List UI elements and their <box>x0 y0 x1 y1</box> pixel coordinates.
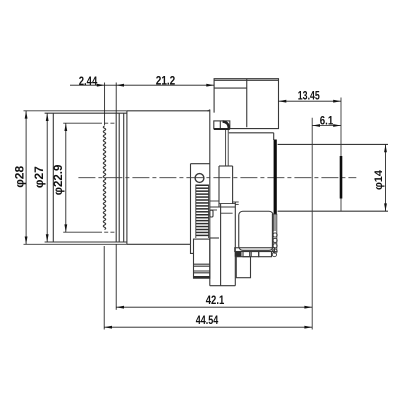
slider block lower <box>210 202 236 286</box>
dim 42.1 line <box>116 306 312 308</box>
main barrel phi28 <box>127 111 210 245</box>
barrel rear lip <box>207 110 210 111</box>
lead screw <box>226 129 229 166</box>
knurl ring rear edges <box>116 113 124 242</box>
arrow 42.1 right <box>304 306 312 309</box>
arrow 21.2 left (points left at 116.2) <box>116 84 124 87</box>
dim phi14 line <box>385 144 387 211</box>
arrow 21.2 right (points right at 214.1) <box>206 84 214 87</box>
arrow 42.1 left <box>116 306 124 309</box>
svg-text:13.45: 13.45 <box>298 88 320 102</box>
centerline <box>78 177 356 179</box>
rear barrel section <box>229 133 274 140</box>
gear rack teeth <box>196 185 209 237</box>
phi14 rear cylinder <box>278 144 388 211</box>
dim 6.1 line <box>312 125 341 127</box>
rear element thick edge <box>274 140 277 215</box>
svg-text:φ28: φ28 <box>13 166 27 188</box>
focus motor body <box>239 211 273 250</box>
gear rack edges <box>196 185 209 239</box>
arrow 6.1 left <box>312 124 320 127</box>
rear glass element <box>340 156 343 199</box>
dim 44.54 line <box>104 326 312 328</box>
slider block upper <box>219 166 233 207</box>
bracket hole <box>195 174 204 183</box>
arrow 44.54 left <box>104 326 112 329</box>
guide bracket <box>191 164 210 245</box>
flange face line <box>311 118 313 330</box>
motor terminal column <box>272 214 277 251</box>
barrel bottom step <box>191 244 194 253</box>
dim phi28 line <box>25 111 27 245</box>
dim 21.2 line <box>116 84 214 86</box>
knurled front face serration <box>103 126 105 230</box>
svg-text:2.44: 2.44 <box>79 74 98 88</box>
arrow phi22.9 top/bottom <box>64 123 67 131</box>
arrow 2.44 left (points right at x=104.6) <box>97 84 105 87</box>
phi28 extension lines (main barrel silhouette extended left) <box>24 111 127 245</box>
arrow phi28 top/bottom <box>25 111 28 119</box>
svg-text:44.54: 44.54 <box>196 313 219 327</box>
dim phi27 line <box>46 113 48 242</box>
gear rack pin <box>210 210 213 217</box>
dimension texts <box>13 74 385 327</box>
dim 42.1: left extension <box>115 244 117 309</box>
svg-text:φ14: φ14 <box>373 169 385 190</box>
rear end face line <box>340 98 342 212</box>
box lower-left coupling notch <box>214 121 230 130</box>
mechanism front edge <box>209 110 211 286</box>
arrow 13.45 left <box>279 100 287 103</box>
arrowheads <box>25 84 387 329</box>
arrow phi27 top/bottom <box>46 113 49 121</box>
motor housing box (top) <box>214 79 278 129</box>
bracket foot <box>194 239 210 278</box>
dim 13.45 line <box>279 100 342 102</box>
dim phi22.9 line <box>65 123 67 232</box>
front barrel phi27 <box>45 113 127 242</box>
svg-text:21.2: 21.2 <box>156 74 176 88</box>
dim 44.54: left extension <box>103 246 105 330</box>
motor bottom plate <box>235 248 275 257</box>
arrow 6.1 right <box>333 124 341 127</box>
slider cross links <box>210 201 239 213</box>
arrow phi14 top/bottom <box>384 144 387 152</box>
lower right block <box>236 257 250 278</box>
svg-text:φ22.9: φ22.9 <box>53 165 65 196</box>
svg-text:42.1: 42.1 <box>206 293 225 307</box>
phi22.9 hidden bore lines <box>63 123 115 232</box>
terminal circles <box>272 233 277 257</box>
svg-text:φ27: φ27 <box>32 166 46 188</box>
dim 2.44 line <box>70 84 105 86</box>
svg-text:6.1: 6.1 <box>320 114 334 128</box>
arrow 13.45 right <box>333 100 341 103</box>
arrow 44.54 right <box>304 326 312 329</box>
dim 2.44 extension lines <box>104 83 106 126</box>
